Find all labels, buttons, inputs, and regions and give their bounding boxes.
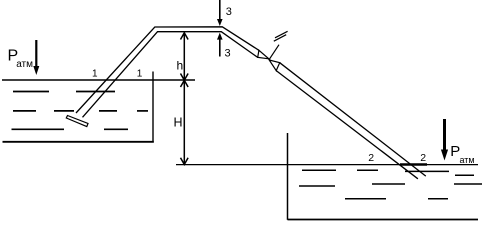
right reservoir bottom — [288, 219, 479, 221]
right reservoir left wall — [287, 133, 289, 220]
dimension H bottom chevron arrowhead (down) — [181, 158, 189, 165]
svg-text:h: h — [177, 59, 184, 73]
dimension H top chevron arrowhead (up) — [181, 80, 189, 87]
left reservoir bottom — [3, 141, 154, 143]
left reservoir water surface line (free surface, section 1-1 plane) — [2, 79, 195, 81]
dimension H vertical line — [183, 81, 185, 165]
pipe inlet end cap (strainer plate) — [66, 116, 88, 127]
valve downstream triangle — [269, 60, 280, 71]
right reservoir water dashes row 1 — [302, 170, 474, 175]
section 3-3 upper arrow (pointing down onto pipe crest) — [219, 0, 221, 20]
valve stem — [269, 45, 279, 60]
right reservoir water dashes row 3 — [345, 198, 448, 200]
svg-text:2: 2 — [420, 152, 426, 164]
svg-text:3: 3 — [226, 6, 232, 18]
left reservoir water dashes row 3 — [12, 128, 129, 130]
siphon pipe upper wall after valve down into right reservoir — [280, 63, 426, 176]
right atmospheric pressure arrow (bold) — [443, 119, 446, 151]
siphon pipe lower wall: rising leg, horizontal crest, descending leg to valve — [83, 32, 258, 118]
siphon pipe lower wall after valve down into right reservoir — [276, 71, 418, 179]
section 2-2 bold marker segment on surface — [400, 163, 427, 166]
svg-text:H: H — [174, 115, 183, 129]
svg-text:атм: атм — [16, 59, 33, 70]
valve handle (double line) — [274, 35, 286, 42]
svg-text:2: 2 — [368, 152, 374, 164]
svg-text:3: 3 — [225, 47, 231, 59]
siphon pipe upper wall: rising leg, horizontal crest, descending leg to valve — [76, 27, 259, 113]
left reservoir water dashes row 2 — [13, 110, 148, 112]
left reservoir right wall — [152, 72, 154, 143]
left atmospheric pressure arrow — [35, 40, 37, 68]
svg-text:1: 1 — [137, 69, 143, 80]
section 3-3 lower arrow (pointing up onto pipe crest) — [219, 39, 221, 57]
dimension h top chevron arrowhead (up) — [181, 33, 189, 40]
dimension h vertical line — [183, 34, 185, 80]
dimension h bottom chevron arrowhead (down) — [181, 74, 189, 81]
svg-text:1: 1 — [92, 69, 98, 80]
valve upstream triangle — [258, 50, 269, 59]
left reservoir water dashes row 1 — [13, 91, 115, 93]
svg-text:атм: атм — [460, 155, 475, 165]
right reservoir water dashes row 2 — [299, 184, 482, 186]
datum / right reservoir water surface line (section 2-2 plane) — [176, 164, 478, 166]
